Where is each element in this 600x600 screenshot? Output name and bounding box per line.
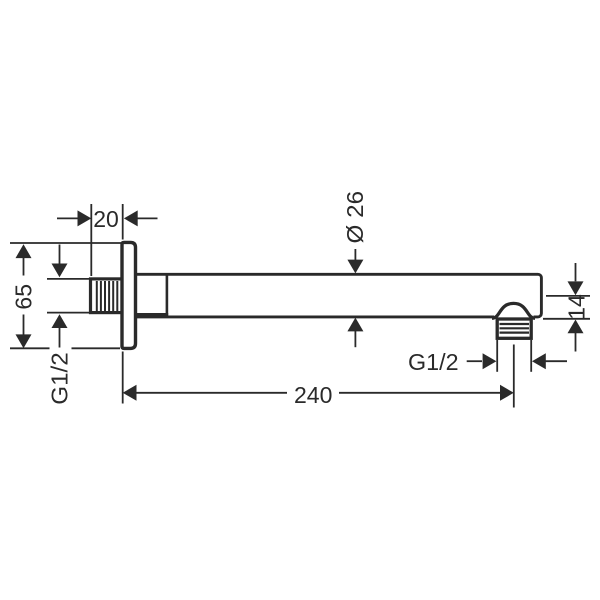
- dimension 240 left arrow: [123, 385, 137, 401]
- dimension 65 bottom arrow: [23, 315, 25, 335]
- wall thread G1/2 (hatched): [91, 279, 124, 313]
- diameter 26 bottom arrow: [347, 318, 363, 332]
- svg-text:G1/2: G1/2: [408, 349, 459, 375]
- svg-text:240: 240: [294, 382, 332, 408]
- dimension 20 extension lines: [91, 204, 122, 276]
- G1/2 wall top arrow: [59, 245, 61, 265]
- dimension 20 right arrow: [124, 210, 138, 226]
- svg-text:14: 14: [563, 294, 589, 320]
- outlet thread G1/2 (hatched): [497, 319, 531, 338]
- dimension 14 top arrow: [575, 263, 577, 281]
- diameter 26 top arrow: [354, 249, 356, 261]
- dimension 14 extension lines: [543, 296, 590, 319]
- arm joint line: [166, 276, 169, 316]
- dimension 20 left arrow: [57, 217, 78, 219]
- outlet dome: [492, 303, 535, 318]
- arm bottom edge (main): [136, 315, 494, 318]
- svg-text:Ø 26: Ø 26: [342, 191, 368, 244]
- G1/2 wall bottom arrow: [52, 314, 68, 328]
- shower arm tube outline (top edge, rounded right end): [136, 274, 541, 317]
- svg-text:G1/2: G1/2: [47, 352, 73, 405]
- G1/2 outlet dimension extension lines: [497, 340, 531, 372]
- dimension 65 top arrow: [16, 244, 32, 258]
- dimension 65 extension lines: [10, 243, 121, 348]
- svg-text:20: 20: [93, 206, 119, 232]
- dimension 240 extension lines: [123, 345, 514, 408]
- wall flange (escutcheon, side view): [122, 242, 136, 348]
- svg-text:65: 65: [11, 284, 37, 310]
- G1/2 outlet right arrow: [532, 353, 546, 369]
- G1/2 outlet left arrow: [467, 360, 482, 362]
- dimension 240 right arrow: [339, 392, 500, 394]
- G1/2 wall dimension extension lines: [47, 279, 89, 313]
- arm bottom step near flange: [136, 313, 168, 316]
- dimension 14 bottom arrow: [568, 320, 584, 334]
